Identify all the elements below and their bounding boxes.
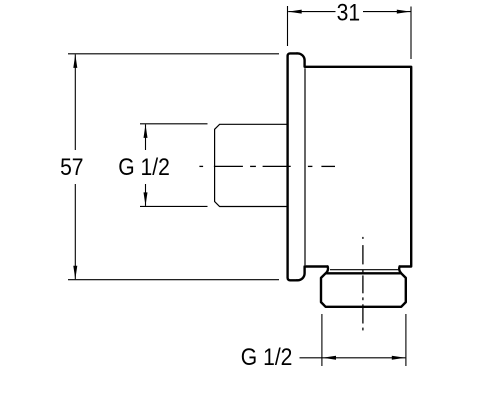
- svg-text:G 1/2: G 1/2: [241, 344, 293, 371]
- svg-text:31: 31: [337, 0, 360, 26]
- svg-text:G 1/2: G 1/2: [118, 154, 170, 181]
- svg-text:57: 57: [60, 154, 83, 181]
